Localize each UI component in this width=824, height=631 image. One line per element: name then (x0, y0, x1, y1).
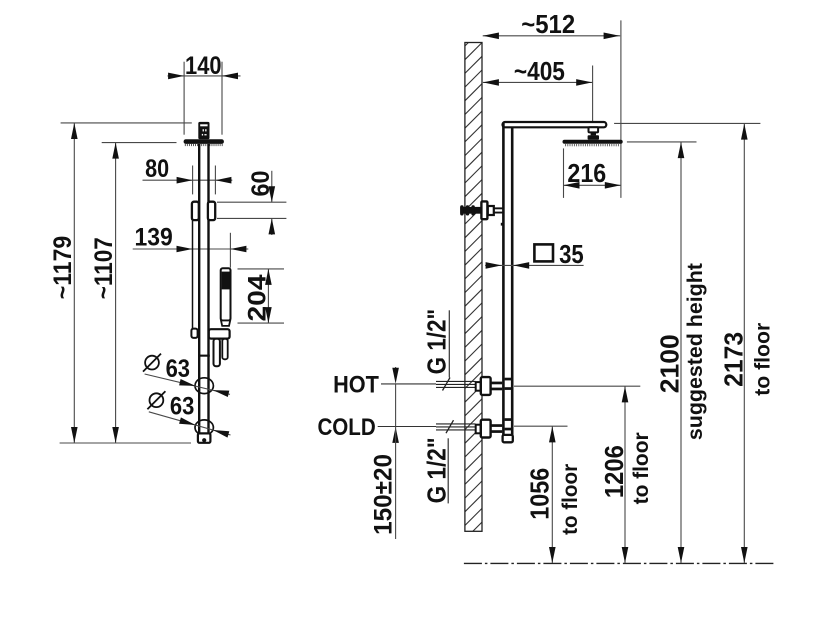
svg-text:150±20: 150±20 (370, 454, 398, 535)
dimension ~405 (483, 56, 593, 86)
svg-text:HOT: HOT (333, 371, 379, 398)
dimension 80 bracket width (143, 155, 233, 195)
handshower wand (221, 268, 231, 326)
svg-text:~1107: ~1107 (90, 237, 118, 299)
HOT supply pipe G 1/2 (436, 378, 476, 391)
dimension ~1179 overall height (49, 123, 78, 443)
dimension 216 head width (564, 158, 621, 188)
dimension square 35 column profile (485, 239, 584, 269)
svg-text:63: 63 (170, 393, 194, 421)
label diameter 63 lower (147, 391, 230, 437)
dimension 60 bracket height (217, 171, 286, 236)
wall bracket lugs (192, 202, 215, 220)
ceiling connector cap (198, 122, 209, 139)
label diameter 63 upper (143, 354, 230, 397)
extension line arm top level (614, 122, 760, 124)
supply elbow circle upper (195, 378, 213, 394)
svg-text:to floor: to floor (752, 323, 775, 396)
extension line at flange underside (102, 142, 177, 144)
extension line at column bottom (60, 442, 191, 444)
dimension 140 flange width (168, 52, 241, 135)
label G 1/2 inch top (422, 309, 452, 378)
svg-text:140: 140 (185, 52, 222, 80)
extension line at column top (61, 122, 192, 124)
column tube side view (199, 144, 208, 434)
column bottom cap front (503, 435, 513, 442)
dimension ~512 (483, 9, 621, 39)
column joint (198, 355, 209, 357)
supply elbow circle lower (195, 420, 213, 435)
svg-text:~1179: ~1179 (49, 236, 77, 300)
HOT wall fitting (476, 377, 503, 395)
extension line right of head (620, 20, 622, 198)
svg-text:63: 63 (166, 355, 190, 383)
dimension 150 plus-minus 20 (370, 367, 399, 539)
handshower holder arm (191, 329, 229, 339)
head ball joint (588, 127, 599, 140)
dimension 139 (133, 223, 249, 267)
svg-text:139: 139 (134, 223, 172, 251)
extension line HOT to 1206 (514, 385, 640, 387)
svg-text:suggested height: suggested height (684, 263, 707, 440)
dimension 2173 to floor (718, 124, 774, 563)
hose and handle ends (214, 339, 228, 367)
dimension ~1107 (90, 143, 119, 443)
label G 1/2 inch bottom (422, 437, 452, 503)
svg-text:COLD: COLD (317, 414, 375, 441)
label COLD (317, 414, 436, 441)
svg-text:G 1/2": G 1/2" (422, 309, 452, 375)
dimension 1206 to floor (599, 386, 653, 563)
upper wall union fitting (460, 201, 503, 219)
extension line COLD to 1056 (514, 425, 568, 427)
COLD wall fitting (476, 420, 503, 438)
column front view (503, 123, 512, 443)
svg-text:to floor: to floor (559, 464, 582, 535)
svg-text:35: 35 (559, 239, 584, 269)
extension line head level (627, 141, 697, 143)
extension line left of head (563, 148, 565, 198)
svg-text:2100: 2100 (655, 334, 685, 393)
shower head centerline (592, 66, 594, 128)
svg-text:60: 60 (247, 171, 275, 197)
dimension 1056 to floor (524, 426, 582, 563)
column rear edge line (192, 220, 194, 329)
svg-text:2173: 2173 (718, 332, 748, 387)
shower head with nozzles (563, 140, 623, 147)
column block at HOT (505, 378, 512, 390)
set screw on column (501, 223, 503, 226)
svg-text:~405: ~405 (514, 56, 565, 86)
svg-text:1056: 1056 (524, 468, 554, 520)
floor line (464, 562, 774, 564)
svg-text:204: 204 (243, 274, 271, 321)
dimension 2100 suggested height (655, 142, 708, 563)
svg-text:80: 80 (145, 155, 169, 183)
dimension 204 handshower length (238, 269, 285, 323)
column block at COLD (505, 418, 512, 430)
shower arm (503, 122, 607, 127)
svg-text:1206: 1206 (599, 445, 629, 498)
label HOT (333, 371, 436, 398)
COLD supply pipe G 1/2 (436, 420, 476, 433)
ceiling flange with hatching (184, 139, 224, 146)
svg-text:~512: ~512 (521, 9, 575, 39)
svg-text:to floor: to floor (630, 432, 653, 504)
svg-text:G 1/2": G 1/2" (422, 437, 452, 503)
column bottom cap (198, 433, 211, 442)
svg-text:216: 216 (567, 158, 606, 188)
